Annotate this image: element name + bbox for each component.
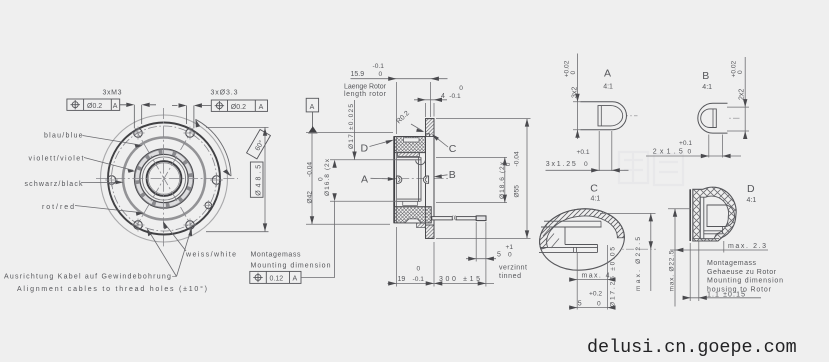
svg-text:schwarz/black: schwarz/black [25,181,84,188]
60deg centerline [135,128,193,228]
cable break marks [452,216,455,221]
tinned cable end [476,216,486,221]
leader rot [75,206,142,213]
svg-text:Gehaeuse zu Rotor: Gehaeuse zu Rotor [707,269,777,276]
svg-text:Montagemass: Montagemass [707,260,757,267]
sleeve bottom lines [397,199,421,201]
horizontal centerline [96,178,238,180]
dim 2x1.5 +0.1/0 [709,135,723,158]
svg-text:3x2: 3x2 [572,87,579,98]
svg-text:0: 0 [597,301,601,308]
dim Ø18.6 (2x [436,157,507,202]
dim 2x2 +0.02/0 [727,107,749,131]
detail C bubble ellipse [537,205,628,275]
flange outer circle Ø48.5 [101,115,228,242]
detail A outer profile [581,102,627,130]
svg-text:19: 19 [398,276,406,283]
svg-text:4:1: 4:1 [591,196,601,203]
svg-text:verzinnt: verzinnt [499,264,527,271]
svg-text:violett/violet: violett/violet [29,156,84,163]
leader from frame to section [301,202,335,278]
cable [432,217,453,220]
detail D inner verticals [700,197,704,239]
svg-text:+0.1: +0.1 [679,140,692,147]
dim 1.1 +-0.15 [690,241,699,301]
bore circle Ø17 [147,161,182,196]
inner race circle [142,157,185,200]
svg-text:blau/blue: blau/blue [44,133,83,140]
detail B centerline [705,117,740,119]
svg-text:0: 0 [417,265,421,272]
svg-text:5: 5 [497,251,501,258]
leader weiss [164,223,186,251]
svg-text:0: 0 [459,85,463,92]
flange disc in section [426,119,435,239]
dim max 2.3 [670,249,768,251]
svg-text:0.12: 0.12 [270,276,284,283]
detail B inner slot [701,109,717,128]
bearing cage ring [137,152,190,205]
flange upper ear hatch [426,119,435,137]
svg-text:max. Ø22.5: max. Ø22.5 [635,237,642,291]
svg-text:4:1: 4:1 [702,84,712,91]
extra pin hole [203,200,213,210]
svg-text:length rotor: length rotor [344,91,387,98]
svg-text:-0.04: -0.04 [513,151,520,166]
svg-text:+0.1: +0.1 [577,149,590,156]
stub lines Ø17/Ø16.8 [330,160,397,202]
tolerance frame position M3 [67,99,120,110]
flange body circle [108,123,220,235]
svg-text:max. Ø22.5: max. Ø22.5 [669,250,676,291]
svg-text:delusi.cn.goepe.com: delusi.cn.goepe.com [587,337,797,358]
svg-text:-0.04: -0.04 [307,162,314,177]
svg-text:Montagemass: Montagemass [251,252,302,259]
leader arrows from M3 frame [120,105,212,129]
watermark blobs [619,152,683,185]
svg-text:A: A [361,174,368,186]
crimp A [397,176,402,183]
svg-text:0: 0 [570,71,577,75]
dim 5 +0.2/0 [569,307,614,309]
svg-text:0: 0 [737,70,744,74]
dim 3x2 +0.02/0 [573,102,581,130]
svg-text:Ø42: Ø42 [307,191,314,204]
detail C seal lips [574,247,577,252]
svg-text:tinned: tinned [499,273,521,280]
baseline dims 19/300 [397,227,435,287]
svg-text:Ø0.2: Ø0.2 [87,103,102,110]
svg-text:15.9: 15.9 [351,71,365,78]
rotor hub top block [394,137,426,153]
svg-text:Laenge Rotor: Laenge Rotor [344,83,387,90]
detail D left wall [689,189,691,241]
leader alignment 2 [177,230,191,277]
svg-text:B: B [702,70,709,82]
left wall of rotor [393,137,395,223]
rotor hub bottom block [394,207,431,223]
sleeve top notch arc [416,161,426,165]
flange lower ear hatch [426,225,435,238]
boxed dimension text Ø48.5 [250,162,263,197]
svg-text:-0.1: -0.1 [413,276,425,283]
svg-text:+1: +1 [506,244,514,251]
svg-text:0: 0 [379,71,383,78]
svg-text:D: D [747,183,755,195]
svg-text:5: 5 [578,301,582,308]
svg-text:Ø17.25 ±0.05: Ø17.25 ±0.05 [610,247,617,307]
section centerline [382,178,448,180]
svg-text:Ø0.2: Ø0.2 [231,104,246,111]
bearing outer ring [135,149,194,208]
leader violett [84,158,133,171]
svg-text:3xØ3.3: 3xØ3.3 [211,90,238,97]
svg-text:housing to Rotor: housing to Rotor [707,286,772,293]
svg-text:Mounting dimension: Mounting dimension [707,278,783,285]
detail C step [539,227,598,252]
dim max Ø22.5 (D) [668,208,691,210]
detail A centerline [606,115,638,117]
svg-text:A: A [259,104,264,111]
tolerance frame position 3.3 [211,100,267,111]
dim 5 +1/0 verzinnt [476,222,486,287]
svg-text:max. 4: max. 4 [582,273,610,280]
detail B outer profile [698,103,728,133]
bearing cage windows [137,152,190,205]
detail D inner pocket [707,205,735,227]
clamp step under hub [417,223,426,228]
120deg centerline [135,128,193,228]
leader blau [83,136,141,146]
svg-text:weiss/white: weiss/white [185,252,236,259]
bearing inner ring [140,155,188,203]
dim Ø55 -0.04 [436,119,531,239]
svg-text:4:1: 4:1 [747,197,757,204]
svg-text:2x2: 2x2 [739,89,746,100]
detail C wall band hatch [540,209,625,249]
leader alignment 1 [149,231,177,277]
bore inner circle [148,163,179,194]
svg-text:C: C [449,143,457,155]
leader schwarz [82,181,122,183]
dim max. 4 [577,245,607,310]
svg-text:D: D [361,143,369,155]
right inner wall [419,157,421,201]
flange step C [426,134,430,137]
60 degree label box [247,130,271,159]
svg-text:+0.2: +0.2 [589,291,602,298]
detail D outer blob with hatch [693,187,736,241]
svg-text:4:1: 4:1 [603,84,613,91]
svg-text:0: 0 [508,251,512,258]
crimp B [423,176,428,183]
sleeve top lines [397,157,421,160]
boss circle [123,138,205,220]
svg-text:C: C [590,183,598,195]
svg-text:max. 2.3: max. 2.3 [728,243,766,250]
svg-text:Ø55: Ø55 [513,185,520,198]
inner shelf line [403,201,418,205]
svg-text:-0.1: -0.1 [373,63,385,70]
detail C centerline [556,248,656,250]
dim 3x1.25 +0.1/0 [599,131,612,171]
svg-text:A: A [113,103,118,110]
detail A inner slot [598,106,623,126]
svg-text:0: 0 [318,177,325,181]
svg-text:B: B [449,169,456,181]
svg-text:3xM3: 3xM3 [103,90,122,97]
svg-text:0: 0 [584,161,588,168]
svg-text:Ø48.5: Ø48.5 [255,165,262,196]
svg-text:A: A [293,276,298,283]
hub top notch [404,138,420,142]
svg-text:A: A [604,68,611,80]
bolt holes 3xM3 and 3xØ3.3 [107,129,221,230]
svg-text:-0.1: -0.1 [449,93,461,100]
svg-text:Alignment cables to thread hol: Alignment cables to thread holes (±10°) [17,285,207,293]
detail C bore lines [541,221,602,227]
hub bottom notch [405,219,421,223]
sleeve collar strip [398,153,420,157]
detail D bottom step [693,227,723,239]
svg-text:Mounting dimension: Mounting dimension [251,262,331,269]
detail C left hatch [543,226,559,249]
60 degree angle arc [196,119,232,176]
svg-text:0: 0 [688,148,692,155]
dim max Ø22.5 [600,212,656,214]
detail D inner region [700,196,728,239]
vertical centerline [163,108,165,248]
svg-text:0: 0 [505,162,512,166]
svg-text:Ø16.8 (2x: Ø16.8 (2x [324,158,331,196]
svg-text:A: A [310,104,315,111]
bolt circle (dash-dot) [112,126,217,231]
